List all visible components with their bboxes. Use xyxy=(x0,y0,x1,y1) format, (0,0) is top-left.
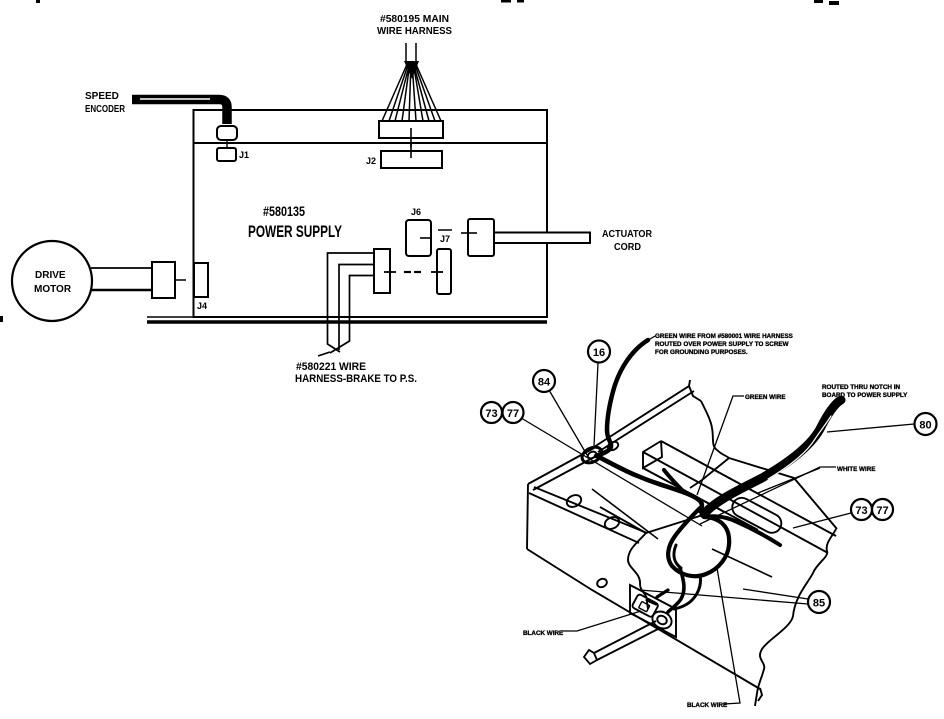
callout circle 16 xyxy=(588,341,610,363)
beam top-front edge xyxy=(643,452,828,553)
speed encoder cable (thick) xyxy=(132,100,227,125)
svg-text:BOARD TO POWER SUPPLY: BOARD TO POWER SUPPLY xyxy=(822,392,908,399)
beam left end xyxy=(643,441,662,468)
roller tube top line xyxy=(594,621,656,653)
main harness connector tick xyxy=(410,128,412,147)
svg-text:CORD: CORD xyxy=(614,242,641,253)
board hole band upper line xyxy=(534,487,647,533)
speed encoder connector xyxy=(217,126,237,140)
wire 80 white slit xyxy=(768,416,831,479)
svg-text:DRIVE: DRIVE xyxy=(35,270,66,281)
callout circle 77 right xyxy=(872,499,893,520)
beam lower front edge segment xyxy=(643,468,724,512)
leader black wire bottom xyxy=(717,568,740,704)
connector J2 xyxy=(381,151,442,168)
actuator connector xyxy=(468,219,494,256)
green wire thick curve top xyxy=(596,340,648,456)
wire descending to outlet a xyxy=(668,568,684,612)
J7 label overline xyxy=(438,229,452,231)
main wire from grommet along beam xyxy=(597,456,702,511)
callout circle 85 xyxy=(808,591,830,613)
motor connector tick xyxy=(175,279,186,281)
svg-text:BLACK WIRE: BLACK WIRE xyxy=(523,630,563,637)
actuator connector tick xyxy=(461,232,477,234)
svg-text:GREEN WIRE FROM #580001 WIRE H: GREEN WIRE FROM #580001 WIRE HARNESS xyxy=(655,333,793,340)
eyelet ring xyxy=(606,440,619,452)
svg-text:73: 73 xyxy=(855,505,867,517)
board bottom edge hook xyxy=(758,688,762,701)
leader green wire label xyxy=(697,396,744,495)
wire 80 thick doubled xyxy=(704,400,841,514)
leader white wire b xyxy=(758,468,820,493)
connector J6 xyxy=(406,220,431,256)
outlet inner mark xyxy=(639,601,650,611)
svg-text:J1: J1 xyxy=(239,150,249,160)
leader 85 b xyxy=(640,590,808,604)
svg-text:#580195 MAIN: #580195 MAIN xyxy=(380,14,449,25)
leader black wire left xyxy=(561,611,641,631)
callout circle 80 xyxy=(915,413,937,435)
leader green wire note tick xyxy=(647,336,655,341)
brake wire 1 xyxy=(328,253,375,352)
connector J4 xyxy=(194,263,208,297)
board hole 1 xyxy=(565,493,583,509)
scan artifact top left dot xyxy=(36,0,40,3)
svg-text:J2: J2 xyxy=(366,156,376,166)
white wire stub descending xyxy=(664,470,684,492)
callout circle 84 xyxy=(533,370,555,392)
leader 85 a xyxy=(743,589,808,599)
socket plate xyxy=(630,585,676,637)
callout circle 73 left xyxy=(481,402,502,423)
board small front hole xyxy=(596,577,608,588)
speed encoder connector tick xyxy=(226,140,228,149)
deck diagonal under loop xyxy=(712,549,772,577)
J7 tick xyxy=(431,271,443,273)
svg-text:84: 84 xyxy=(538,377,551,389)
torn edge right of notch xyxy=(701,401,729,458)
svg-text:J7: J7 xyxy=(440,234,450,244)
roller tube bottom line xyxy=(597,628,660,660)
motor shaft top line xyxy=(91,267,152,269)
svg-text:MOTOR: MOTOR xyxy=(34,284,72,295)
baseline under power supply (thin) xyxy=(147,316,547,318)
brake connector tick xyxy=(384,271,396,273)
svg-text:77: 77 xyxy=(507,408,519,420)
wire loop inner arc xyxy=(674,545,681,568)
svg-text:WHITE WIRE: WHITE WIRE xyxy=(837,466,875,473)
inner horizontal line of power supply box xyxy=(194,142,548,144)
J6 tick xyxy=(420,237,431,239)
power supply box #580135 xyxy=(194,110,548,317)
rail upper line to notch xyxy=(594,380,690,447)
svg-text:POWER SUPPLY: POWER SUPPLY xyxy=(248,222,342,241)
svg-text:#580135: #580135 xyxy=(263,203,305,219)
svg-text:J4: J4 xyxy=(197,301,207,311)
drive motor circle xyxy=(12,241,92,321)
leader 73 77 left xyxy=(522,419,702,527)
svg-text:ROUTED THRU NOTCH IN: ROUTED THRU NOTCH IN xyxy=(822,384,900,391)
socket outer ellipse xyxy=(649,608,674,632)
deck line from junction down-right xyxy=(729,458,837,529)
svg-text:ROUTED OVER POWER SUPPLY TO SC: ROUTED OVER POWER SUPPLY TO SCREW xyxy=(655,341,789,348)
beam front bottom edge xyxy=(643,468,758,530)
svg-text:WIRE HARNESS: WIRE HARNESS xyxy=(377,26,452,37)
leader 73 77 right xyxy=(793,513,851,528)
brake wire 2 xyxy=(339,265,374,351)
board hole band lower line xyxy=(529,493,639,543)
svg-text:GREEN WIRE: GREEN WIRE xyxy=(745,394,786,401)
scan artifact left edge xyxy=(0,316,3,322)
board left face vertical xyxy=(527,484,528,549)
callout circle 73 right xyxy=(851,499,872,520)
outlet rounded rect xyxy=(632,594,659,618)
white wire capsule xyxy=(729,494,785,536)
svg-text:77: 77 xyxy=(876,505,888,517)
socket inner ellipse xyxy=(656,614,669,626)
motor shaft bottom line xyxy=(91,289,152,292)
callout circle 77 left xyxy=(503,402,524,423)
connector J7 xyxy=(437,249,451,294)
deck cutout edge under wire xyxy=(592,489,658,539)
rail lower line xyxy=(598,391,694,452)
motor connector xyxy=(152,262,175,298)
leader white wire a xyxy=(700,467,836,524)
middle torn edge fold right xyxy=(646,514,706,533)
svg-text:FOR GROUNDING PURPOSES.: FOR GROUNDING PURPOSES. xyxy=(655,349,748,356)
wire loop slack xyxy=(668,508,729,576)
svg-text:85: 85 xyxy=(813,598,825,610)
leader 80 xyxy=(827,424,914,432)
wire bits above outlet xyxy=(657,590,668,597)
middle torn edge wavy xyxy=(628,533,648,609)
svg-text:80: 80 xyxy=(919,420,931,432)
svg-text:#580221 WIRE: #580221 WIRE xyxy=(296,361,366,373)
grommet inner xyxy=(587,450,598,459)
brake wire 3 xyxy=(330,276,374,354)
leader 16 xyxy=(594,363,598,446)
board front bottom edge xyxy=(527,549,760,689)
middle torn edge fold left xyxy=(600,507,646,533)
svg-text:ACTUATOR: ACTUATOR xyxy=(602,229,653,240)
roller end cap xyxy=(584,650,597,664)
speed encoder cable highlight xyxy=(140,98,210,100)
svg-text:HARNESS-BRAKE TO P.S.: HARNESS-BRAKE TO P.S. xyxy=(295,373,417,385)
J2 tick xyxy=(410,144,412,158)
wire descending to outlet b xyxy=(674,575,701,609)
notch step xyxy=(689,386,701,401)
scan artifact top dashes xyxy=(501,0,511,3)
board hole 2 xyxy=(603,515,621,531)
baseline under power supply (thick) xyxy=(147,320,547,323)
wire harness fan xyxy=(382,43,441,121)
brake connector on power supply xyxy=(374,249,390,293)
right torn edge wavy xyxy=(755,529,836,706)
svg-text:ENCODER: ENCODER xyxy=(85,104,126,115)
svg-text:J6: J6 xyxy=(411,207,421,217)
main harness connector block xyxy=(379,121,443,138)
beam top-back edge xyxy=(661,441,836,536)
dash marks xyxy=(404,271,411,273)
grommet outer xyxy=(579,444,604,466)
svg-text:73: 73 xyxy=(485,408,497,420)
svg-text:SPEED: SPEED xyxy=(85,91,119,102)
svg-text:16: 16 xyxy=(593,347,605,359)
actuator cord bar xyxy=(494,233,590,244)
wire from loop into capsule xyxy=(704,516,780,545)
connector J1 xyxy=(217,148,236,161)
brake wire arrow stub xyxy=(318,352,330,356)
board top-left edge outer xyxy=(528,448,594,484)
board top-left edge inner xyxy=(533,454,600,490)
svg-text:BLACK WIRE: BLACK WIRE xyxy=(687,702,727,709)
leader 84 xyxy=(549,390,587,455)
deck line from junction down-left xyxy=(690,458,729,488)
